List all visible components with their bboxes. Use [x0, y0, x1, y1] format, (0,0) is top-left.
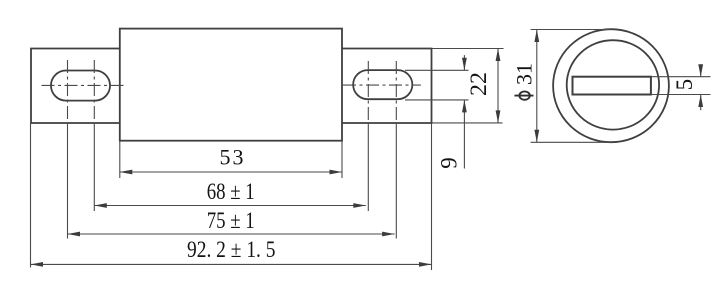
- left slot horizontal centerline: [42, 84, 126, 86]
- svg-text:92. 2 ± 1. 5: 92. 2 ± 1. 5: [187, 237, 276, 262]
- dimension line 9 lower segment: [463, 100, 465, 169]
- dimension line 75±1: [68, 233, 395, 235]
- fuse body outline (side view): [120, 29, 342, 141]
- arrow 9 top: [462, 58, 467, 71]
- arrow 68 right: [353, 203, 366, 208]
- phi symbol of diameter label: [515, 91, 534, 99]
- arrow 75 left: [68, 232, 81, 237]
- arrow 92.2 left: [31, 262, 44, 267]
- end cap inner circle: [567, 40, 659, 129]
- svg-text:5: 5: [672, 79, 697, 91]
- arrow 68 left: [94, 203, 107, 208]
- svg-text:22: 22: [466, 72, 491, 96]
- svg-text:68 ± 1: 68 ± 1: [207, 179, 255, 204]
- extension line for 92.2 dim right: [431, 123, 433, 270]
- svg-text:9: 9: [437, 157, 462, 169]
- dimension line 5 lower segment: [700, 95, 702, 111]
- extension line for 68 dim left: [93, 123, 95, 211]
- right slot left-arc vertical centerline: [367, 61, 369, 123]
- arrow phi31 top: [534, 30, 539, 43]
- dimension line 53: [120, 171, 342, 173]
- arrow 53 right: [330, 170, 343, 175]
- right tab slot (obround hole): [353, 70, 412, 99]
- right mounting tab outline: [342, 49, 432, 124]
- right slot right-arc vertical centerline: [395, 61, 397, 123]
- svg-text:53: 53: [220, 145, 246, 170]
- dimension line 68±1: [94, 205, 366, 207]
- extension line for 9 dim bottom: [405, 99, 469, 101]
- extension line for phi31 dim bottom: [531, 141, 612, 143]
- arrow 75 right: [382, 232, 395, 237]
- extension line for 53 dim left: [119, 141, 121, 178]
- svg-text:75 ± 1: 75 ± 1: [207, 208, 255, 233]
- right slot horizontal centerline: [343, 84, 421, 86]
- extension line for 22 dim top: [432, 48, 504, 50]
- arrow 5 bottom: [698, 95, 703, 108]
- arrow 53 left: [120, 170, 133, 175]
- extension line for 75 dim right: [395, 123, 397, 239]
- arrow 9 bottom: [462, 100, 467, 113]
- end cap outer circle (end view): [553, 29, 669, 142]
- extension line for 5 dim bottom: [651, 94, 711, 96]
- dimension line 5 upper segment: [700, 66, 702, 77]
- svg-text:31: 31: [512, 63, 537, 85]
- extension line for 92.2 dim left: [30, 123, 32, 268]
- arrow 22 top: [496, 49, 501, 62]
- extension line for phi31 dim top: [531, 29, 611, 31]
- left mounting tab outline: [31, 49, 120, 124]
- extension line for 75 dim left: [67, 123, 69, 239]
- extension line for 5 dim top: [651, 76, 711, 78]
- extension line for 22 dim bottom: [432, 122, 503, 124]
- extension line for 68 dim right: [367, 123, 369, 211]
- left slot left-arc vertical centerline: [67, 60, 69, 123]
- arrow 5 top: [698, 64, 703, 77]
- dimension line 9 upper segment: [463, 55, 465, 70]
- arrow phi31 bottom: [534, 130, 539, 143]
- dimension line phi31: [536, 30, 538, 143]
- left slot right-arc vertical centerline: [93, 60, 95, 123]
- extension line for 53 dim right: [341, 141, 343, 178]
- left tab slot (obround hole): [51, 71, 110, 101]
- dimension line 22: [497, 49, 499, 123]
- arrow 22 bottom: [496, 110, 501, 123]
- extension line for 9 dim top: [405, 69, 469, 71]
- end cap screwdriver slot: [573, 77, 651, 95]
- dimension line 92.2±1.5: [31, 263, 432, 265]
- arrow 92.2 right: [419, 262, 432, 267]
